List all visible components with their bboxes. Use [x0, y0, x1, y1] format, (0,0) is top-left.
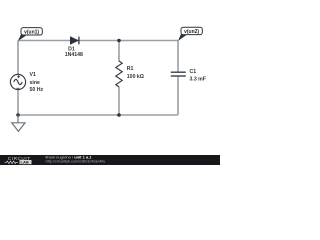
svg-text:LAB: LAB [21, 160, 29, 165]
svg-text:C1: C1 [190, 69, 197, 75]
svg-text:50 Hz: 50 Hz [30, 87, 44, 93]
wire left lower [17, 90, 19, 115]
wire left upper [17, 41, 19, 75]
junction bottom middle [117, 113, 121, 117]
wire middle upper [118, 41, 120, 62]
svg-text:R1: R1 [127, 66, 134, 72]
D1 value label [65, 47, 83, 58]
svg-text:sine: sine [30, 80, 40, 86]
wire middle lower [118, 87, 120, 115]
node v(un2) probe label [178, 27, 202, 41]
wire bottom rail [18, 114, 178, 116]
C1 value label [190, 69, 206, 83]
ground [12, 115, 25, 131]
watermark footer bar [0, 155, 220, 165]
resistor R1 [116, 61, 122, 87]
junction bottom left [16, 113, 20, 117]
capacitor C1 [171, 72, 186, 76]
junction top middle [117, 39, 121, 43]
svg-text:3.3 mF: 3.3 mF [190, 77, 206, 83]
svg-text:http://circuitlab.com/c/8brtv/: http://circuitlab.com/c/8brtv/bran4ilu [46, 160, 106, 164]
wire top rail [18, 40, 178, 42]
wire right upper [177, 41, 179, 73]
watermark CircuitLab logo [5, 156, 32, 164]
voltage source V1 [10, 74, 25, 89]
R1 value label [127, 66, 144, 80]
svg-text:100 kΩ: 100 kΩ [127, 74, 144, 80]
node v(un1) probe label [18, 28, 42, 41]
wire right lower [177, 76, 179, 115]
diode D1 [70, 37, 79, 45]
V1 value label [30, 72, 44, 93]
svg-text:v(un2): v(un2) [184, 29, 199, 35]
svg-text:v(un1): v(un1) [24, 30, 39, 36]
svg-text:V1: V1 [30, 72, 36, 78]
svg-text:1N4148: 1N4148 [65, 52, 83, 58]
